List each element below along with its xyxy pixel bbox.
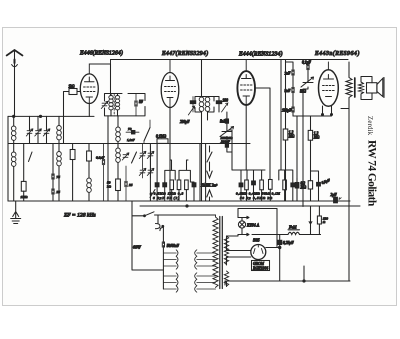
antenna coil L2: [11, 152, 16, 166]
svg-text:60W: 60W: [133, 245, 141, 250]
coil: [199, 97, 204, 111]
resistor 1,2M: [283, 129, 288, 140]
svg-text:1nF: 1nF: [285, 72, 292, 76]
grid cap 0,1uF at tube4: [307, 64, 309, 69]
output transformer primary: [341, 62, 352, 281]
svg-text:kΩ: kΩ: [107, 185, 112, 189]
triode E446 U1: [80, 60, 110, 104]
wires rectifier filament: [227, 236, 251, 265]
filled cap: [291, 183, 295, 187]
wires tube4 pins: [323, 106, 332, 114]
coupling caps column: [282, 60, 294, 202]
IF transformer T2: [180, 60, 228, 125]
antenna: [7, 50, 23, 116]
svg-text:5nF: 5nF: [220, 120, 227, 124]
resistor 0,2M: [308, 181, 312, 189]
coupling coil L4: [57, 152, 62, 166]
wire LT to bus: [226, 281, 228, 287]
field coil Feld: [288, 232, 299, 234]
smoothing cap 0,25uF: [279, 235, 281, 241]
cap 0,1uF: [102, 159, 104, 164]
resistor box: [283, 180, 287, 190]
svg-text:505: 505: [253, 238, 260, 243]
wire tube1 cathode down to bus: [88, 103, 90, 116]
pickup jack arrows: [201, 146, 218, 201]
wires trimmers: [30, 116, 47, 143]
series resistor 0,1M in AVC bus: [157, 139, 168, 144]
switch: [150, 190, 155, 198]
bracket B: [279, 170, 293, 183]
svg-text:Feld: Feld: [288, 225, 297, 230]
long wire: [205, 144, 207, 202]
wire: [88, 144, 90, 179]
tetrode E444 U3: [237, 60, 255, 106]
potentiometer RES MOhm: [220, 127, 234, 137]
dial lamp: [238, 221, 245, 228]
resistor 1M left: [21, 181, 26, 191]
filled cap: [192, 183, 196, 187]
svg-text:RW 74 Goliath: RW 74 Goliath: [365, 140, 377, 207]
svg-text:25: 25: [57, 190, 61, 194]
coil L7: [115, 96, 119, 110]
bottom HT bus: [225, 280, 350, 282]
resistor box: [170, 180, 174, 190]
svg-text:MΩ: MΩ: [288, 135, 295, 139]
wire: top anode bus: [111, 59, 349, 61]
svg-text:230pF: 230pF: [180, 120, 190, 124]
filled cap 70: [132, 131, 135, 134]
svg-text:RGN1064: RGN1064: [252, 267, 268, 271]
cap 9nF: [292, 87, 294, 92]
trimmer C2: [35, 129, 42, 136]
junction dots: [13, 115, 15, 117]
resistor box: [185, 180, 189, 190]
bandfilter 1 below tube1: [101, 64, 145, 116]
bracket 1: [165, 160, 175, 182]
padder trimmer: [122, 153, 129, 160]
resistor box: [177, 180, 181, 190]
filled cap: [155, 183, 159, 187]
cap 25: [125, 181, 127, 186]
long wire: [149, 144, 151, 202]
wire T2 secondary down: [201, 112, 203, 201]
svg-text:2µF: 2µF: [331, 193, 338, 197]
antenna coil L1: [11, 126, 16, 140]
wire: [58, 166, 60, 201]
osc coil A: [117, 116, 119, 127]
svg-text:Zerdik: Zerdik: [366, 116, 373, 136]
transformer core: [220, 217, 223, 289]
left resistor cluster: [150, 143, 196, 201]
wire: [285, 60, 287, 202]
secondary HT winding: [224, 236, 228, 264]
switch: [144, 128, 150, 142]
coupling core dashed: [113, 94, 115, 116]
voltage tap sockets: [163, 250, 215, 292]
trimmer pair upper: [139, 151, 146, 158]
wire lamp winding: [227, 235, 239, 237]
heater bus: [140, 205, 360, 207]
svg-text:GROM: GROM: [253, 262, 265, 266]
svg-text:E444(RENS1234): E444(RENS1234): [238, 51, 283, 58]
wire: [72, 144, 74, 202]
coil L6: [109, 96, 113, 110]
dial lamp feed: [238, 209, 277, 248]
wire: [23, 144, 25, 202]
trimmer C3: [43, 129, 50, 136]
cap 0,5uF: [317, 182, 321, 186]
cap 1nF: [292, 70, 294, 75]
svg-text:1kΩ: 1kΩ: [69, 85, 75, 89]
resistor 0,1M: [87, 151, 92, 161]
wave switch left: [29, 152, 33, 162]
trimmer pair lower: [139, 168, 146, 175]
svg-text:MΩ: MΩ: [313, 136, 320, 140]
wires grid chain: [227, 112, 241, 170]
wires pot: [303, 62, 308, 207]
cap 25pF: [52, 189, 54, 194]
cap 100pF: [292, 107, 294, 112]
svg-text:1MΩ: 1MΩ: [21, 195, 29, 199]
svg-text:75: 75: [57, 175, 61, 179]
trimmer C1: [26, 129, 33, 136]
speaker winding: [359, 77, 372, 100]
osc coil B: [117, 141, 119, 148]
electrolytic 2uF on bus: [334, 197, 338, 203]
output tube E443 U4: [319, 62, 339, 106]
filled cap: [295, 183, 299, 189]
output transformer core: [354, 78, 356, 97]
resistor box: [260, 180, 264, 190]
rectifier tube: [251, 245, 266, 260]
bracket A: [241, 170, 265, 183]
mid AVC bus: [8, 143, 250, 145]
ground symbol: [11, 201, 21, 224]
svg-text:100pF: 100pF: [282, 109, 292, 113]
trimmer C6: [101, 101, 108, 108]
wire left edge down: [7, 116, 9, 201]
cap C7: [135, 101, 137, 106]
svg-text:7A HK 2m²: 7A HK 2m²: [201, 184, 218, 188]
long wire: [199, 144, 201, 202]
right resistor cluster: [236, 170, 299, 201]
resistor 15k: [70, 150, 75, 160]
svg-text:9nF: 9nF: [285, 89, 292, 93]
svg-text:MΩ: MΩ: [300, 186, 307, 190]
coil L5: [87, 178, 92, 192]
wire: [88, 192, 90, 201]
grid stopper box 1kOhm at tube1: [64, 89, 81, 144]
svg-text:70: 70: [128, 127, 132, 131]
wire: [58, 116, 60, 151]
wire: drop to AF coupling at x281: [280, 60, 282, 171]
coil: [205, 97, 210, 111]
resistor box: [245, 180, 249, 190]
filled cap: [239, 183, 243, 187]
bracket 2: [179, 160, 190, 182]
wire switch feed: [132, 201, 163, 270]
grid cap 5nF: [225, 119, 228, 123]
cap 200pF: [225, 143, 228, 147]
wire tube3 screen tap: [255, 88, 270, 180]
svg-text:E447(RENS3294): E447(RENS3294): [161, 50, 208, 57]
cap 75pF: [52, 174, 54, 179]
trimmer cap right 100pF: [216, 101, 221, 104]
wire with arrow: [309, 206, 312, 235]
svg-text:6 2µF 50 (2): 6 2µF 50 (2): [153, 196, 180, 200]
wire tube3 cathode down: [245, 105, 247, 170]
field coil line: [238, 233, 321, 235]
wire rectifier output: [266, 247, 280, 249]
rectifier label box: [252, 261, 270, 271]
switch 2: [132, 152, 137, 163]
wire: anode drop to filter: [110, 64, 112, 95]
resistor box solo: [269, 180, 273, 190]
wire tube2 cathode down: [169, 108, 171, 202]
speaker: [367, 78, 385, 98]
filled cap: [252, 181, 256, 185]
tuning coil L3: [57, 126, 62, 140]
filled cap: [163, 183, 167, 187]
power transformer primary winding: [213, 215, 218, 287]
left block top bus: [8, 115, 94, 117]
wires: [13, 116, 15, 201]
svg-text:100: 100: [223, 99, 229, 103]
plug symbol: [156, 224, 163, 231]
triode E447 U2: [161, 60, 179, 108]
svg-text:E446(RENS1264): E446(RENS1264): [79, 50, 123, 57]
svg-text:50/60nF: 50/60nF: [167, 244, 180, 248]
oscillator column: [96, 116, 154, 201]
cap 50/60nF: [162, 242, 164, 247]
right branch resistor 1,2M: [300, 116, 332, 201]
wire heater line under tube4: [293, 115, 332, 117]
dial lamp line arrows: [238, 216, 249, 218]
svg-text:E443n(RES964): E443n(RES964): [314, 50, 360, 57]
resistor 50k: [116, 179, 121, 191]
filter rails: [105, 94, 146, 116]
wire: [52, 144, 54, 202]
ground bus: [8, 200, 350, 202]
branch wire: [311, 171, 319, 201]
grid potentiometer: [301, 77, 314, 87]
mains switch: [132, 212, 216, 216]
svg-text:25: 25: [129, 183, 133, 187]
svg-text:ZF = 128 kHz: ZF = 128 kHz: [64, 213, 96, 219]
resistor 180: [317, 216, 321, 224]
wire down from plug: [158, 215, 163, 243]
svg-text:EY64 A: EY64 A: [246, 223, 260, 228]
wire: [296, 116, 298, 201]
wire: [107, 116, 109, 201]
secondary LT winding: [224, 271, 228, 286]
trimmer cap left: [190, 101, 195, 104]
